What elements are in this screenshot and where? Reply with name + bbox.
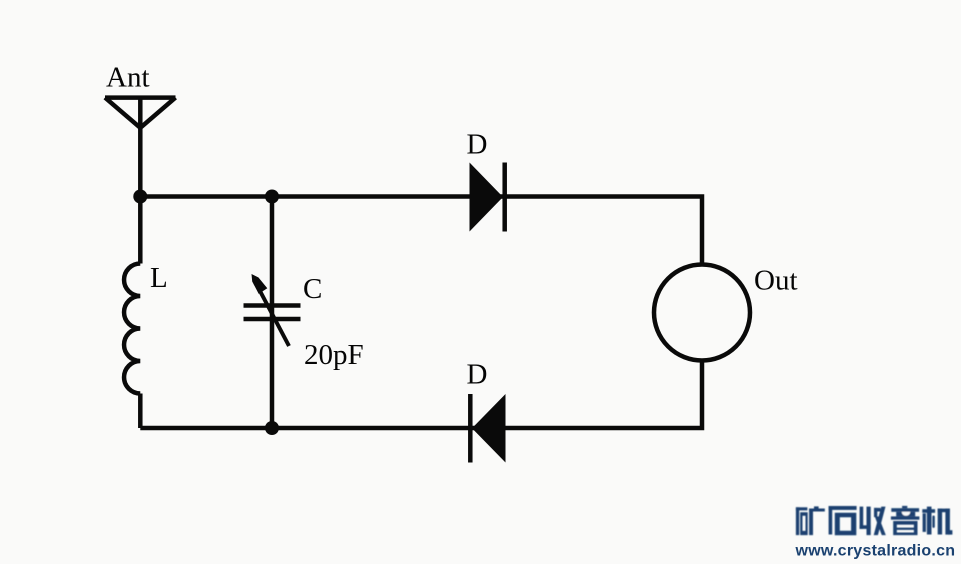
- svg-text:www.crystalradio.cn: www.crystalradio.cn: [795, 543, 956, 560]
- svg-text:Out: Out: [754, 265, 798, 297]
- svg-text:C: C: [303, 273, 322, 305]
- svg-text:L: L: [150, 262, 168, 294]
- svg-text:20pF: 20pF: [304, 339, 364, 371]
- svg-text:D: D: [467, 359, 488, 391]
- svg-text:Ant: Ant: [106, 62, 150, 94]
- svg-text:D: D: [467, 129, 488, 161]
